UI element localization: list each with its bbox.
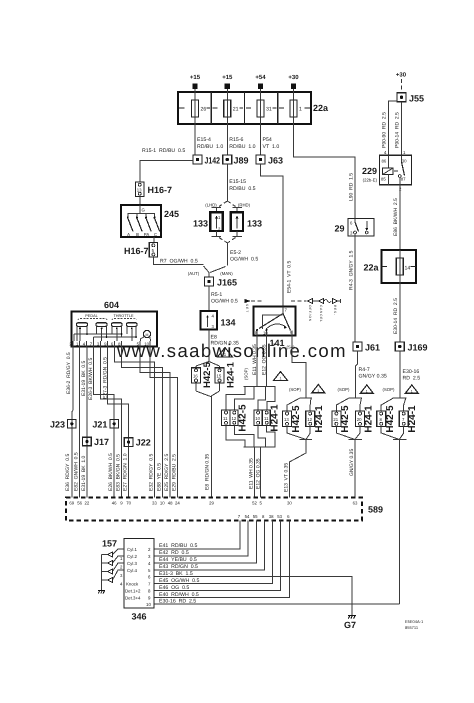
- connector H42-5 pin 13: [283, 405, 302, 433]
- svg-text:H24-1: H24-1: [364, 405, 375, 433]
- svg-text:+15: +15: [222, 74, 233, 81]
- svg-text:OG/WH 0.5: OG/WH 0.5: [211, 299, 238, 305]
- wire E30-16 RD 2.5 row (to connector pair E30): [154, 603, 399, 605]
- connector H24-1 pin 20: [356, 405, 375, 433]
- svg-text:E30-14 RD 2.5: E30-14 RD 2.5: [393, 298, 399, 334]
- svg-text:11: 11: [223, 416, 228, 421]
- svg-text:604: 604: [104, 300, 119, 310]
- svg-text:E8 RD/GN 0.35: E8 RD/GN 0.35: [205, 454, 211, 490]
- wire ECU pin 55 to E44 row: [154, 521, 256, 564]
- svg-text:H24-1: H24-1: [270, 404, 281, 432]
- wire E31-19 BK 1.0 (604 pin 4 to ECU 22): [81, 347, 87, 498]
- wire E15-4 RD/BU 1.0 (fuse 26 to J142): [195, 124, 223, 155]
- node (SOP) label group E30: [383, 387, 396, 392]
- svg-text:+54: +54: [255, 74, 266, 81]
- svg-text:+30: +30: [288, 74, 299, 81]
- node +30 (J55 feed): [396, 72, 407, 93]
- wire ECU pin 54 to E42 row: [154, 521, 248, 557]
- svg-text:10: 10: [255, 416, 260, 421]
- svg-text:RD/BU 1.0: RD/BU 1.0: [229, 144, 255, 150]
- svg-text:E12 OG 0.35: E12 OG 0.35: [261, 344, 267, 375]
- svg-text:GN/GY 0.35: GN/GY 0.35: [359, 374, 387, 380]
- connector H24-1 pins 10/11: [254, 404, 281, 432]
- svg-text:(SOP): (SOP): [338, 387, 351, 392]
- svg-text:H42-5: H42-5: [385, 405, 396, 433]
- svg-text:E36-2 RD/GY 0.5: E36-2 RD/GY 0.5: [66, 352, 72, 394]
- svg-text:46: 46: [112, 500, 117, 505]
- node split bracket (R4-7): [336, 396, 362, 411]
- clutch pedal switch 133 (RHD): [231, 212, 262, 231]
- svg-text:21: 21: [333, 417, 338, 422]
- svg-text:Det.1+2: Det.1+2: [125, 589, 141, 594]
- connector J23: [50, 419, 76, 429]
- svg-text:24: 24: [175, 500, 180, 505]
- svg-text:Cyl.2: Cyl.2: [127, 554, 138, 559]
- svg-text:22: 22: [85, 500, 90, 505]
- connector J169: [395, 342, 427, 353]
- svg-text:21: 21: [233, 107, 239, 113]
- svg-text:RD 2.5: RD 2.5: [403, 376, 421, 382]
- node merge below (R4-7) and wire to ECU pin 63: [336, 426, 362, 497]
- svg-text:E30-16 RD 2.5: E30-16 RD 2.5: [159, 598, 196, 604]
- node +54 (fuse 31 feed): [255, 74, 266, 89]
- wire E27 RD/GN 1.0 (604 pin 9 to ECU 70): [102, 347, 128, 498]
- svg-text:E26-3 BK/WH 0.5: E26-3 BK/WH 0.5: [88, 358, 94, 400]
- svg-text:H24-1: H24-1: [226, 361, 237, 388]
- wire P90-90 RD 2.5 (J55 to relay 229 pin 4): [382, 101, 398, 155]
- fuse 21: [224, 88, 239, 124]
- svg-text:H16-7: H16-7: [148, 185, 173, 195]
- brake light switch 134: [201, 311, 236, 330]
- spark plug cylinder 1: [102, 549, 125, 561]
- warning triangle (group E13): [312, 385, 325, 394]
- svg-text:87: 87: [401, 177, 406, 182]
- svg-text:26: 26: [201, 107, 207, 113]
- svg-text:OFF/ON: OFF/ON: [308, 305, 312, 322]
- connector J63: [256, 155, 283, 166]
- svg-text:RES-: RES-: [333, 305, 337, 316]
- svg-text:(SOP): (SOP): [244, 367, 249, 380]
- wire R4-7 GN/GY 0.35 (J61 down): [356, 351, 387, 396]
- ignition module 346: [102, 539, 154, 622]
- potentiometer (pedal 1): [77, 323, 88, 341]
- svg-text:E13 VT 0.35: E13 VT 0.35: [284, 463, 290, 492]
- svg-text:16: 16: [193, 374, 198, 379]
- warning triangle 1 (group E8): [218, 348, 233, 358]
- svg-text:10: 10: [263, 331, 268, 336]
- potentiometer (pedal 2): [96, 323, 107, 341]
- fuse 1: [290, 88, 302, 124]
- svg-text:33: 33: [152, 500, 157, 505]
- svg-text:E32 RD/GY 0.5: E32 RD/GY 0.5: [148, 454, 154, 491]
- motor M (throttle actuator): [140, 330, 150, 341]
- svg-text:29: 29: [209, 500, 214, 505]
- svg-text:157: 157: [102, 539, 117, 549]
- wire (H16-7 to ignition switch 245): [139, 197, 141, 206]
- svg-text:OG/WH 0.5: OG/WH 0.5: [230, 257, 258, 263]
- svg-text:E25 RD/GY 2.5: E25 RD/GY 2.5: [164, 454, 170, 491]
- fuse holder 22a (fuse 14): [363, 250, 416, 283]
- wire E25 RD/GY 2.5 (604 pin 5 to ECU 48): [140, 347, 170, 498]
- wire ECU pin 6 to E40 row: [154, 521, 289, 598]
- svg-text:E43 RD/GN 0.5: E43 RD/GN 0.5: [159, 564, 198, 570]
- warning triangle (group E30): [405, 385, 418, 394]
- node split bracket (E11/E12 pair): [226, 385, 276, 411]
- svg-text:E15-4: E15-4: [197, 137, 211, 143]
- node (SOP) label group R4-7: [338, 387, 351, 392]
- svg-text:Knock: Knock: [126, 582, 139, 587]
- svg-text:J169: J169: [408, 343, 428, 353]
- svg-text:E44 YE/BU 0.5: E44 YE/BU 0.5: [159, 557, 197, 563]
- svg-text:12: 12: [232, 416, 237, 421]
- svg-text:J21: J21: [92, 419, 107, 429]
- svg-text:H24-1: H24-1: [314, 405, 325, 433]
- svg-text:+15: +15: [190, 74, 201, 81]
- connector H42-5 pin 16: [192, 361, 214, 388]
- svg-text:E11 WH 0.35: E11 WH 0.35: [248, 458, 254, 489]
- svg-text:229: 229: [362, 166, 377, 176]
- node split to H42-5/H24-1 (E8): [196, 362, 220, 368]
- node (SOP) label group E13: [289, 387, 302, 392]
- svg-text:G7: G7: [344, 620, 356, 630]
- node 346 row labels and pins: [125, 547, 151, 607]
- svg-text:PA: PA: [144, 232, 150, 237]
- svg-text:E45 OG/WH 0.5: E45 OG/WH 0.5: [159, 578, 199, 584]
- wire E88 YE 0.5 (604 pin 8 to ECU 10): [122, 347, 163, 498]
- switch 29: [334, 219, 374, 237]
- svg-text:10: 10: [144, 342, 149, 347]
- svg-text:J89: J89: [234, 156, 249, 166]
- node merge below (E30) and wire down to 346 row: [381, 426, 406, 604]
- throttle/pedal unit 604: [72, 300, 158, 347]
- svg-text:22a: 22a: [313, 103, 329, 113]
- svg-text:63: 63: [353, 500, 358, 505]
- svg-text:E41 RD/BU 0.5: E41 RD/BU 0.5: [159, 543, 197, 549]
- svg-text:H16-7: H16-7: [124, 246, 149, 256]
- connector J142: [193, 155, 220, 166]
- connector J165: [205, 273, 238, 288]
- wire R15-6 RD/BU 1.0 (fuse 21 to J89): [227, 124, 255, 155]
- svg-text:52: 52: [252, 500, 257, 505]
- svg-text:R4-7: R4-7: [359, 367, 370, 373]
- svg-text:1: 1: [299, 107, 302, 113]
- connector H24-1 pin 7: [399, 405, 418, 433]
- wire E11 WH 0.35 (141 pin 8 down): [252, 336, 258, 385]
- node merge below 133: [212, 231, 242, 243]
- svg-text:E83 BK/GN 0.5: E83 BK/GN 0.5: [115, 454, 121, 491]
- wire R7 OG/WH 0.5 (H16-7 to J165, AUT): [153, 257, 209, 272]
- warning triangle (group E11/E12): [274, 372, 288, 381]
- svg-text:10: 10: [146, 602, 151, 607]
- ground (spark plugs): [98, 555, 105, 594]
- wire ECU pin 53 to E46 row: [154, 521, 281, 591]
- svg-text:R15-6: R15-6: [229, 137, 243, 143]
- svg-text:E29 RD/BU 2.5: E29 RD/BU 2.5: [171, 454, 177, 491]
- svg-text:E54-1 VT 0.5: E54-1 VT 0.5: [287, 261, 293, 293]
- svg-text:E11 WH 0.35: E11 WH 0.35: [252, 344, 258, 375]
- svg-text:141: 141: [270, 338, 285, 348]
- svg-text:134: 134: [221, 318, 236, 328]
- svg-text:H24-1: H24-1: [407, 405, 418, 433]
- connector H24-1 pin 12: [306, 405, 325, 433]
- svg-text:R4-3 GN/GY 1.5: R4-3 GN/GY 1.5: [348, 250, 354, 290]
- connector J22: [124, 438, 150, 448]
- wire P90-14 RD 2.5 (J55 to relay 229 pin 1): [395, 102, 402, 156]
- svg-text:B: B: [136, 232, 139, 237]
- svg-text:31: 31: [266, 107, 272, 113]
- svg-text:22a: 22a: [363, 263, 379, 273]
- svg-text:133: 133: [193, 219, 208, 229]
- svg-text:M: M: [146, 333, 149, 337]
- svg-text:E27 RD/GN 1.0: E27 RD/GN 1.0: [123, 453, 129, 491]
- svg-text:48: 48: [168, 500, 173, 505]
- wire E54-1 VT 0.5 (J63 to cruise stalk 141 pin 7): [261, 164, 293, 307]
- wire R15-1 RD/BU 0.5 (J142 to H16-7): [140, 148, 193, 182]
- svg-text:H42-5: H42-5: [291, 405, 302, 433]
- svg-text:VT 1.0: VT 1.0: [263, 144, 280, 150]
- cruise control switch 141: [254, 307, 296, 350]
- svg-text:15: 15: [217, 374, 222, 379]
- node ECU bottom pin numbers: [238, 514, 290, 519]
- svg-text:E31-3 BK 1.5: E31-3 BK 1.5: [159, 571, 193, 577]
- watermark: [116, 340, 347, 361]
- connector H42-5 pins 11/12: [222, 404, 249, 432]
- ignition switch 245: [121, 205, 179, 237]
- svg-text:Cyl.1: Cyl.1: [127, 547, 138, 552]
- node split bracket (E30): [381, 396, 406, 411]
- svg-text:E42 RD 0.5: E42 RD 0.5: [159, 550, 189, 556]
- svg-text:E88 YE 0.5: E88 YE 0.5: [156, 463, 162, 491]
- node merge below (E13) and wire to ECU pin 30: [284, 426, 313, 497]
- node split LHD/RHD (dashed alternative): [205, 201, 250, 212]
- node ECU top pin numbers: [69, 500, 358, 505]
- svg-text:(SOP): (SOP): [289, 387, 302, 392]
- wire ECU pin 38 to E45 row: [154, 521, 272, 584]
- svg-text:RD/BU 0.5: RD/BU 0.5: [229, 186, 255, 192]
- node document id: [405, 619, 424, 630]
- node merge bracket below (E11/E12) and wires to ECU pins 52/5: [226, 425, 276, 497]
- svg-text:70: 70: [126, 500, 131, 505]
- svg-text:(MAN): (MAN): [220, 271, 233, 276]
- svg-text:(22b-E): (22b-E): [363, 178, 378, 183]
- fuse 31: [257, 88, 272, 124]
- svg-text:J17: J17: [94, 437, 109, 447]
- node stalk position indicators (dashed arrows SET / OFF/ON CANCEL RES): [245, 299, 341, 323]
- wire ECU pin 7 to E41 row: [154, 521, 240, 550]
- svg-text:R7 OG/WH 0.5: R7 OG/WH 0.5: [160, 259, 198, 265]
- svg-text:E27-3 RD/GN 0.5: E27-3 RD/GN 0.5: [102, 357, 108, 399]
- svg-text:+30: +30: [396, 72, 407, 79]
- svg-text:E12 OG 0.35: E12 OG 0.35: [255, 458, 261, 489]
- node +30 (fuse 1 feed): [288, 74, 299, 89]
- wire E13 VT 0.35 (141 pin 9 down): [292, 336, 306, 397]
- svg-text:346: 346: [132, 612, 147, 622]
- svg-text:J61: J61: [365, 343, 380, 353]
- svg-text:38: 38: [269, 514, 274, 519]
- wire L90 RD 1.5 (fuse 1 to switch 29): [294, 124, 356, 219]
- svg-text:E36 RD/GY 0.5: E36 RD/GY 0.5: [65, 454, 71, 491]
- svg-text:CANCEL: CANCEL: [319, 305, 323, 323]
- svg-text:E40 RD/WH 0.5: E40 RD/WH 0.5: [159, 592, 199, 598]
- wire E30-16 RD 2.5 (J169 down): [400, 351, 420, 396]
- svg-text:245: 245: [164, 209, 179, 219]
- svg-text:53: 53: [277, 514, 282, 519]
- node internal bus 604: [74, 333, 137, 341]
- svg-text:J22: J22: [136, 438, 151, 448]
- svg-text:A: A: [127, 232, 130, 237]
- svg-text:69: 69: [69, 500, 74, 505]
- spark plug cylinder 4: [102, 570, 125, 587]
- connector H24-1 pin 15: [215, 361, 237, 388]
- wire R5-1 OG/WH 0.5 (J165 to brake switch 134): [209, 286, 238, 311]
- node merge below pair (E8) and wire to ECU pin 29: [196, 383, 220, 498]
- wire E82 GN/WH 0.5 (604 pin 1 to ECU 56): [74, 347, 80, 498]
- svg-text:J142: J142: [205, 156, 221, 166]
- svg-text:E82 GN/WH 0.5: E82 GN/WH 0.5: [74, 452, 80, 491]
- svg-text:H42-5: H42-5: [238, 404, 249, 432]
- svg-text:RD/GN 0.35: RD/GN 0.35: [211, 341, 239, 347]
- svg-text:13: 13: [284, 417, 289, 422]
- connector J55: [397, 93, 424, 104]
- node bottom row labels: [159, 543, 199, 604]
- svg-text:H42-5: H42-5: [340, 405, 351, 433]
- svg-text:1: 1: [411, 390, 413, 394]
- svg-text:E26 BK/WH 0.5: E26 BK/WH 0.5: [108, 453, 114, 491]
- wire E8 RD/GN 0.35 (134 down): [209, 330, 239, 362]
- ground G7: [344, 615, 356, 630]
- wire E5-2 OG/WH 0.5 (133 to J165, MAN): [210, 243, 258, 273]
- clutch pedal switch 133 (LHD): [193, 212, 223, 231]
- connector H42-5 pin 21: [332, 405, 351, 433]
- wire E29 RD/BU 2.5 (604 pin 10 to ECU 24): [150, 347, 177, 498]
- svg-text:1: 1: [317, 389, 319, 393]
- wire E86 BK/WH 2.5 (relay 229 to fuse 22a): [393, 185, 400, 250]
- spark plug cylinder 2: [102, 556, 125, 570]
- svg-text:55: 55: [253, 514, 258, 519]
- wire E36-2 RD/GY 0.5 (604 pin 2 to ECU 69): [65, 347, 73, 498]
- connector J89: [223, 155, 249, 166]
- svg-text:86: 86: [382, 159, 387, 164]
- svg-text:E15-15: E15-15: [229, 179, 246, 185]
- fuse box 22a (top, fuses 26/21/31/1): [178, 92, 329, 124]
- svg-text:Det.3+4: Det.3+4: [125, 596, 141, 601]
- svg-text:THROTTLE: THROTTLE: [113, 314, 134, 318]
- svg-text:E46 OG 0.5: E46 OG 0.5: [159, 585, 189, 591]
- svg-text:(RHD): (RHD): [238, 203, 251, 208]
- svg-text:P54: P54: [263, 137, 272, 143]
- wire ECU pin 8 to E43 row: [154, 521, 264, 571]
- relay 229 (22b-E): [362, 150, 412, 192]
- svg-text:20: 20: [357, 417, 362, 422]
- wire E15-15 RD/BU 0.5 (J89 down to clutch switches 133): [227, 164, 255, 201]
- svg-text:589: 589: [368, 505, 383, 515]
- svg-text:E5-2: E5-2: [230, 250, 241, 256]
- svg-text:30: 30: [402, 159, 407, 164]
- svg-text:E31-19 BK 0.5: E31-19 BK 0.5: [81, 360, 87, 396]
- wire E32 RD/GY 0.5 (604 pin 6 to ECU 33): [115, 347, 155, 498]
- svg-text:J23: J23: [50, 419, 65, 429]
- svg-text:1: 1: [366, 390, 368, 394]
- ECU 589 (dashed box): [66, 498, 383, 521]
- svg-text:Cyl.3: Cyl.3: [127, 561, 138, 566]
- svg-text:P90-90 RD 2.5: P90-90 RD 2.5: [382, 112, 388, 148]
- connector H16-7 pin 13: [136, 182, 173, 197]
- wire E26 BK/WH 0.5 (604 pin 7 to ECU 46): [88, 347, 114, 498]
- svg-text:(SOP): (SOP): [383, 387, 396, 392]
- wire P54 VT 1.0 (fuse 31 to J63): [261, 124, 280, 155]
- node split bracket (E13): [287, 396, 312, 411]
- spark plug cylinder 3: [102, 563, 125, 578]
- svg-text:R5-1: R5-1: [211, 292, 222, 298]
- wire R4-3 GN/GY 1.5 (29 to J61): [348, 236, 355, 342]
- potentiometer (throttle 2): [127, 323, 138, 341]
- svg-text:(S4): (S4): [287, 345, 296, 350]
- svg-text:29: 29: [334, 224, 344, 234]
- svg-text:(AUT): (AUT): [188, 271, 200, 276]
- fuse 26: [192, 88, 207, 124]
- svg-text:SET: SET: [245, 304, 249, 313]
- wire E31-3 BK 1.5 row to ground G7: [154, 577, 352, 616]
- connector J17: [83, 437, 109, 447]
- connector J21: [92, 419, 118, 429]
- svg-text:10: 10: [160, 500, 165, 505]
- svg-text:J55: J55: [409, 94, 424, 104]
- svg-text:13: 13: [137, 188, 142, 193]
- svg-text:RD/BU 1.0: RD/BU 1.0: [197, 144, 223, 150]
- node +15 (fuse 26 feed): [190, 74, 201, 89]
- svg-text:E31-19 BK 1.0: E31-19 BK 1.0: [81, 455, 87, 491]
- node (SOP) label group E11/E12: [244, 367, 249, 380]
- svg-text:J165: J165: [217, 278, 237, 288]
- svg-text:30: 30: [287, 500, 292, 505]
- connector J61: [353, 342, 380, 353]
- potentiometer (throttle 1): [112, 323, 123, 341]
- svg-text:J63: J63: [268, 156, 283, 166]
- svg-text:11: 11: [264, 416, 269, 421]
- svg-text:Cyl.4: Cyl.4: [127, 568, 138, 573]
- node AUT/MAN labels: [188, 271, 234, 276]
- svg-text:54: 54: [245, 514, 250, 519]
- wire E30-14 RD 2.5 (fuse 22a to J169): [393, 283, 400, 342]
- node 604 bottom pins 2 1 4 7 3 9 6 8 5 10: [69, 341, 150, 347]
- svg-text:85: 85: [381, 177, 386, 182]
- svg-text:E30-16: E30-16: [403, 369, 420, 375]
- svg-text:GN/GY 0.35: GN/GY 0.35: [349, 449, 355, 476]
- wire E12 OG 0.35 (141 pin 10 down): [261, 336, 267, 385]
- svg-text:(LHD): (LHD): [205, 203, 217, 208]
- svg-text:14: 14: [405, 266, 411, 272]
- connector H16-7 pin 5: [124, 243, 158, 258]
- wire E83 BK/GN 0.5 (604 pin 3 to ECU 9): [101, 347, 122, 498]
- svg-text:133: 133: [247, 219, 262, 229]
- svg-text:E86 BK/WH 2.5: E86 BK/WH 2.5: [393, 198, 399, 236]
- connector H42-5 pin 8: [377, 405, 396, 433]
- svg-text:H42-5: H42-5: [202, 361, 213, 388]
- svg-text:PEDAL: PEDAL: [85, 314, 97, 318]
- svg-text:855711: 855711: [405, 625, 419, 630]
- node +15 (fuse 21 feed): [222, 74, 233, 89]
- svg-text:L90 RD 1.5: L90 RD 1.5: [349, 173, 355, 201]
- svg-text:R15-1 RD/BU 0.5: R15-1 RD/BU 0.5: [142, 148, 185, 154]
- svg-text:56: 56: [77, 500, 82, 505]
- svg-text:E5E04A-1: E5E04A-1: [405, 619, 424, 624]
- warning triangle (group R4-7): [360, 385, 373, 394]
- wire (245 terminal C down): [153, 237, 155, 243]
- svg-text:1: 1: [279, 377, 281, 381]
- svg-text:C: C: [154, 232, 157, 237]
- svg-text:12: 12: [307, 417, 312, 422]
- svg-text:P90-14 RD 2.5: P90-14 RD 2.5: [395, 112, 401, 148]
